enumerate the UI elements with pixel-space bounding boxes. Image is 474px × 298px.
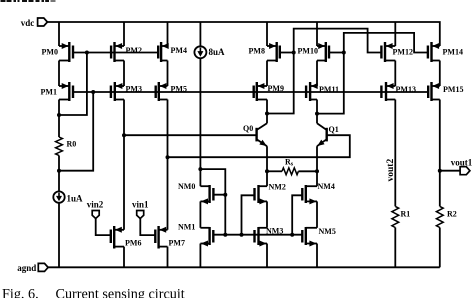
wire Rs right: [298, 170, 317, 172]
svg-text:NM5: NM5: [319, 227, 336, 236]
wire PM14-PM15 link: [439, 61, 441, 87]
wire NMOS gate rail: [213, 234, 302, 236]
svg-text:vin1: vin1: [132, 200, 149, 210]
wire PM10-PM11 link: [316, 61, 318, 87]
svg-text:PM6: PM6: [125, 239, 141, 248]
node PM5 drain: [166, 155, 170, 159]
wire PM2 source drop: [123, 22, 125, 46]
node PM8 gate: [292, 51, 296, 55]
svg-text:PM12: PM12: [393, 48, 413, 57]
label PM11: [319, 85, 339, 94]
wire NMOS bias column: [224, 195, 226, 235]
node Q1 emitter / Rs right: [315, 169, 319, 173]
svg-text:agnd: agnd: [17, 263, 36, 273]
transistor NM5: [302, 227, 317, 247]
label R1: [401, 210, 411, 219]
label R0: [67, 140, 77, 149]
transistor PM11: [306, 82, 318, 101]
label R2: [447, 210, 457, 219]
port vdc: [21, 18, 48, 28]
transistor PM10: [317, 42, 329, 62]
transistor PM2: [111, 42, 124, 62]
svg-text:PM4: PM4: [171, 46, 187, 55]
wire PM6 drain to ground: [123, 247, 125, 268]
wire NM4 gate link: [292, 195, 302, 234]
label PM3: [126, 85, 142, 94]
svg-text:NM2: NM2: [269, 183, 286, 192]
wire vin2 to PM6 gate: [96, 218, 111, 235]
wire Q1 base: [168, 135, 350, 157]
node NM0 gate tap: [223, 193, 227, 197]
wire Q0 base: [124, 134, 257, 136]
label PM12: [393, 48, 413, 57]
svg-text:NM1: NM1: [178, 223, 195, 232]
wire PM15 drain to R2 (vout1): [439, 100, 441, 207]
transistor NM0: [200, 185, 213, 204]
label PM7: [169, 239, 185, 248]
svg-text:PM8: PM8: [249, 47, 265, 56]
transistor PM0: [59, 42, 73, 62]
wire row-B gate rail: [73, 91, 428, 93]
label PM8: [249, 47, 265, 56]
wire PM8 source drop: [266, 22, 268, 46]
node PM10 gate: [342, 51, 346, 55]
svg-text:PM1: PM1: [41, 88, 57, 97]
svg-text:8uA: 8uA: [209, 47, 226, 57]
port vout1: [451, 157, 473, 174]
wire NM5 source to ground: [316, 244, 318, 268]
wire Q1-collector to PM10/PM14 gates: [317, 33, 428, 114]
label PM2: [126, 46, 142, 55]
transistor NM1: [200, 227, 213, 247]
wire NM0 drain link: [199, 169, 201, 186]
node vout1 branch: [438, 169, 442, 173]
label 1uA: [67, 194, 84, 204]
svg-text:PM0: PM0: [42, 48, 58, 57]
wire NM0-NM1 link: [199, 201, 201, 227]
label NM0: [178, 182, 195, 191]
wire NM3 source to ground: [266, 244, 268, 268]
label PM5: [171, 85, 187, 94]
label NM5: [319, 227, 336, 236]
label Q1: [329, 125, 339, 134]
label PM9: [268, 84, 284, 93]
svg-text:R1: R1: [401, 210, 411, 219]
wire PM12 source drop: [394, 22, 396, 46]
wire Q1 emitter: [316, 146, 318, 186]
wire NM2 gate link: [242, 195, 255, 234]
transistor PM12: [381, 42, 395, 62]
svg-text:R2: R2: [447, 210, 457, 219]
wire R0 bottom: [58, 156, 60, 192]
svg-text:NM0: NM0: [178, 182, 195, 191]
label 8uA: [209, 47, 226, 57]
transistor PM7: [155, 226, 167, 249]
resistor R2: [436, 206, 443, 227]
wire PM1 drain to R0: [58, 100, 60, 138]
svg-text:PM10: PM10: [298, 47, 318, 56]
port vin1: [132, 200, 149, 219]
transistor Q0: [257, 123, 267, 146]
resistor Rs: [282, 168, 298, 175]
wire R2 bottom: [439, 228, 441, 268]
wire vdc rail: [47, 22, 439, 46]
node R0 bottom: [57, 169, 61, 173]
wire PM0 source drop: [58, 22, 60, 46]
transistor PM15: [428, 82, 440, 101]
wire PM4 source drop: [167, 22, 169, 46]
svg-text:1uA: 1uA: [67, 194, 84, 204]
wire PM0-PM1 link: [58, 61, 60, 87]
node NM2 gate tap: [240, 233, 244, 237]
transistor NM3: [255, 227, 268, 247]
node Q0 emitter / Rs left: [265, 169, 269, 173]
wire PM8-PM9 link: [266, 61, 268, 87]
wire PM5 drain column: [167, 100, 169, 230]
svg-text:vin2: vin2: [87, 200, 104, 210]
transistor Q1: [317, 123, 327, 146]
wire R1 bottom: [394, 228, 396, 268]
label NM2: [269, 183, 286, 192]
transistor PM3: [111, 82, 124, 101]
port agnd: [17, 263, 48, 273]
svg-text:Q1: Q1: [329, 125, 339, 134]
wire PM2-PM3 link: [123, 61, 125, 87]
caption Fig. 6: [2, 287, 185, 298]
wire vin1 to PM7 gate: [140, 218, 155, 235]
transistor PM14: [428, 42, 440, 62]
wire vout1 branch: [440, 170, 460, 172]
svg-text:Current sensing circuit: Current sensing circuit: [56, 287, 185, 298]
wire NM0 gate wrap: [200, 169, 225, 195]
node Q1 collector: [315, 112, 319, 116]
current source 8uA: [194, 46, 206, 58]
svg-text:vdc: vdc: [21, 18, 35, 28]
cropped text fragments from line above: [1, 0, 56, 2]
wire PM3 drain column: [123, 100, 125, 230]
svg-text:PM7: PM7: [169, 239, 185, 248]
label NM1: [178, 223, 195, 232]
svg-text:PM2: PM2: [126, 46, 142, 55]
label PM15: [443, 85, 463, 94]
label PM10: [298, 47, 318, 56]
label Rs: [285, 157, 294, 167]
wire row-B gate to R0-bottom link: [59, 92, 93, 171]
transistor PM13: [381, 82, 395, 101]
transistor PM6: [111, 226, 124, 249]
port vin2: [87, 200, 104, 219]
svg-text:R0: R0: [67, 140, 77, 149]
svg-text:PM15: PM15: [443, 85, 463, 94]
svg-text:vout2: vout2: [386, 159, 396, 182]
wire 8uA to NM0: [199, 58, 201, 169]
transistor PM8: [267, 42, 280, 62]
label PM14: [443, 48, 463, 57]
label vout2: [386, 159, 396, 182]
wire PM0-gate to PM1-drain link: [59, 53, 87, 116]
svg-text:Fig. 6.: Fig. 6.: [2, 287, 39, 298]
wire PM10 gate stub: [329, 52, 344, 54]
node PM0 gate tap: [85, 51, 89, 55]
transistor PM9: [254, 82, 267, 101]
node NMOS bias rail tap: [223, 233, 227, 237]
wire Q0 emitter: [266, 146, 268, 186]
label PM1: [41, 88, 57, 97]
label Q0: [243, 124, 253, 133]
transistor PM1: [59, 82, 73, 101]
wire PM4-PM5 link: [167, 61, 169, 87]
wire Q0-collector to PM8/PM12 gates: [267, 29, 381, 114]
label PM0: [42, 48, 58, 57]
wire 8uA source drop: [199, 22, 201, 47]
wire PM12-PM13 link: [394, 61, 396, 87]
wire row-A gate rail: [73, 52, 158, 54]
wire 1uA to ground: [58, 203, 60, 268]
wire PM8 gate stub: [280, 52, 294, 54]
svg-text:NM4: NM4: [318, 182, 335, 191]
wire NM2-NM3 link: [266, 201, 268, 227]
label NM3: [266, 227, 283, 236]
label NM4: [318, 182, 335, 191]
svg-text:PM14: PM14: [443, 48, 463, 57]
label PM4: [171, 46, 187, 55]
transistor PM4: [158, 42, 169, 62]
wire Q0 collector: [266, 100, 268, 124]
node PM1 drain: [57, 113, 61, 117]
wire NM1 source to ground: [199, 244, 201, 268]
wire PM7 drain to ground: [167, 247, 169, 268]
node Q0 collector: [265, 112, 269, 116]
node 8uA / NM0 drain-gate: [198, 167, 202, 171]
wire PM10 source drop: [316, 22, 318, 46]
transistor NM4: [302, 185, 317, 204]
node row-B gate tap: [91, 90, 95, 94]
svg-text:Q0: Q0: [243, 124, 253, 133]
label PM13: [396, 85, 416, 94]
transistor NM2: [255, 185, 268, 204]
wire NM4-NM5 link: [316, 201, 318, 227]
wire Rs left: [267, 170, 282, 172]
current source 1uA: [53, 191, 64, 202]
ground rail: [48, 266, 440, 268]
resistor R1: [392, 206, 399, 227]
wire Q1 collector: [316, 100, 318, 124]
node PM3 drain / Q0 base: [122, 133, 126, 137]
transistor PM5: [156, 82, 168, 101]
resistor R0: [56, 137, 63, 156]
node NM4 gate tap: [290, 233, 294, 237]
wire PM13 drain to R1 (vout2): [394, 100, 396, 207]
label PM6: [125, 239, 141, 248]
